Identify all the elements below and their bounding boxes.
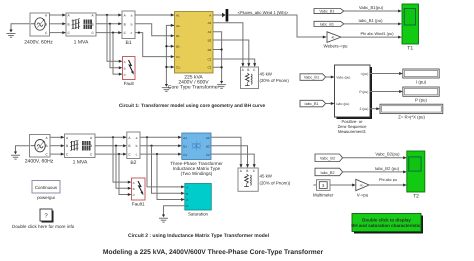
svg-text:A: A: [209, 13, 211, 17]
wire 1MVA A to B1: [96, 14, 119, 16]
wire B2 a to blue transformer A1: [140, 136, 178, 138]
block 1 MVA (top): [66, 13, 96, 36]
measurement block B2: [127, 132, 140, 159]
wire source2 A to 1MVA: [50, 136, 61, 138]
wire Vabc_B2 to scope T2: [343, 157, 404, 159]
svg-text:2400V, 60Hz: 2400V, 60Hz: [24, 39, 53, 45]
svg-text:Fault: Fault: [124, 81, 135, 86]
svg-text:C2: C2: [207, 57, 211, 61]
node neutral bus B1-: [165, 45, 167, 47]
svg-text:C2: C2: [206, 153, 210, 157]
wire Vabc_B1 to measurement: [326, 76, 331, 78]
svg-text:B: B: [92, 22, 94, 26]
display Z: [380, 104, 443, 113]
svg-text:A1: A1: [176, 13, 180, 17]
svg-text:B: B: [246, 169, 248, 173]
svg-text:B2: B2: [206, 144, 210, 148]
wire Iabc_B1 to scope T1: [344, 23, 399, 25]
svg-text:45 kW: 45 kW: [260, 71, 273, 76]
svg-text:Vabc_B2(pu): Vabc_B2(pu): [375, 152, 400, 157]
wire flux output to mux: [213, 14, 222, 16]
svg-text:b: b: [136, 144, 138, 148]
wire sat tap C to Saturation: [157, 154, 181, 199]
wire tap B down to Fault1: [116, 146, 128, 189]
wire tap A down to Fault1: [113, 137, 128, 182]
wire 1MVA2 C to B2: [95, 153, 123, 155]
node tap C (bottom fault): [118, 153, 120, 155]
label Three-Phase Transformer Inductance Matrix Type (Two Windings): [170, 161, 223, 176]
svg-text:b: b: [131, 22, 133, 26]
svg-text:A2: A2: [206, 136, 210, 140]
svg-text:A: A: [186, 185, 188, 189]
info block ?: [40, 209, 54, 223]
gain V to pu: [356, 179, 369, 190]
svg-text:-K-: -K-: [331, 36, 336, 40]
measurement block B1: [122, 11, 135, 39]
mux (flux): [222, 9, 228, 22]
node neutral bus right B2-: [221, 48, 223, 50]
fault block Fault (top): [123, 57, 136, 80]
node on B1 c wire: [138, 31, 140, 33]
svg-text:Phi abc pu: Phi abc pu: [379, 178, 397, 182]
wire B1 a to transformer A1: [135, 14, 171, 16]
svg-text:B: B: [133, 187, 135, 191]
svg-text:Double click here for more inf: Double click here for more info: [12, 224, 75, 229]
node sat tap C: [156, 153, 158, 155]
wire source2 B to 1MVA: [50, 145, 61, 147]
svg-text:B: B: [68, 22, 70, 26]
wire neutral bus right (A2- B2- C2-): [213, 32, 222, 81]
wire tap C down to Fault1: [119, 154, 128, 194]
svg-text:a: a: [136, 136, 138, 140]
wire neutral bus left (A1- B1- C1-): [166, 25, 174, 84]
wire C2 to load1: [213, 59, 255, 63]
wire gain to scope T2: [369, 184, 403, 186]
svg-text:B: B: [90, 144, 92, 148]
scope T1: [402, 4, 419, 44]
svg-text:Iabc_B1 (pu): Iabc_B1 (pu): [359, 18, 384, 23]
ground G3 (below load1 left): [217, 81, 226, 88]
svg-text:Vabc_B1(pu): Vabc_B1(pu): [359, 5, 384, 10]
wire Vabc_B1 to scope T1: [344, 10, 399, 12]
svg-text:Fault1: Fault1: [132, 202, 145, 207]
svg-text:A: A: [124, 60, 126, 64]
wire B2 c to blue transformer C1: [140, 153, 178, 155]
saturation block (teal): [185, 184, 212, 211]
svg-text:A2: A2: [208, 21, 212, 25]
wire B2 b to blue transformer B1: [140, 145, 178, 147]
svg-text:B: B: [66, 144, 68, 148]
wire 1MVA2 A to B2: [95, 136, 123, 138]
svg-text:B: B: [247, 68, 249, 72]
svg-text:(Two Windings): (Two Windings): [181, 171, 213, 176]
svg-text:B2: B2: [130, 160, 136, 166]
ground G4: [11, 152, 20, 160]
svg-text:Vabc_B1: Vabc_B1: [304, 76, 319, 80]
svg-text:C1: C1: [183, 153, 187, 157]
wire Z(pu) to display: [370, 108, 377, 110]
svg-text:Double click to display: Double click to display: [362, 218, 411, 223]
svg-text:45 kW: 45 kW: [260, 174, 273, 179]
wire 1MVA2 B to B2: [95, 145, 123, 147]
svg-text:Z (pu): Z (pu): [360, 107, 369, 111]
ground G5 (saturation): [159, 215, 168, 223]
svg-text:B: B: [128, 144, 130, 148]
wire tap B down to Fault: [110, 24, 119, 68]
svg-text:C1: C1: [176, 55, 180, 59]
wire sat tap A to Saturation: [147, 137, 181, 187]
svg-text:Measurement1: Measurement1: [338, 129, 367, 134]
wire blue A2 to load2: [211, 137, 241, 164]
wire gain to scope T1: [341, 36, 398, 38]
ground G1: [7, 30, 16, 38]
label 45 kW (bottom load): [260, 174, 291, 186]
svg-text:T1: T1: [407, 46, 413, 52]
svg-text:N: N: [186, 204, 188, 208]
from tag Vabc_B1 (top): [314, 9, 344, 14]
wire A2 to load1: [213, 23, 243, 64]
gain Webers to pu: [327, 32, 341, 43]
svg-text:I (pu): I (pu): [416, 79, 427, 84]
svg-text:1 MVA: 1 MVA: [73, 160, 88, 166]
multimeter block: [313, 180, 330, 191]
svg-text:A1: A1: [183, 136, 187, 140]
wire B1 b to transformer B1: [135, 24, 171, 36]
svg-text:BH and saturation characterist: BH and saturation characteristics: [351, 223, 423, 228]
svg-text:V->pu: V->pu: [357, 192, 369, 197]
svg-text:T2: T2: [413, 194, 419, 200]
wire source1 C to 1MVA: [50, 32, 63, 34]
svg-text:Z= R+j*X (pu): Z= R+j*X (pu): [398, 115, 425, 120]
wire mux to Webers gain: [228, 15, 323, 37]
block 1 MVA (bottom): [65, 134, 96, 158]
transformer block 225 kVA Core Type (yellow): [175, 12, 214, 74]
node tap C (top fault): [112, 31, 114, 33]
wire P(pu) to display: [370, 91, 399, 93]
svg-text:Iabc_B2 (pu): Iabc_B2 (pu): [375, 166, 400, 171]
source block 2400V 60Hz (bottom): [30, 135, 51, 158]
wire source1 A to 1MVA: [50, 14, 63, 16]
wire N of source 1 to ground: [11, 24, 30, 30]
svg-text:A2: A2: [208, 30, 212, 34]
wire Iabc_B1 to measurement: [326, 103, 331, 105]
node tap B (bottom fault): [115, 145, 117, 147]
wire B1 c to transformer C1: [135, 33, 171, 57]
svg-text:B2: B2: [208, 48, 212, 52]
svg-text:Phi abc Wind1 (pu): Phi abc Wind1 (pu): [360, 31, 394, 36]
svg-text:I (pu): I (pu): [361, 72, 369, 76]
svg-text:Core Type Transformer: Core Type Transformer: [168, 85, 220, 91]
svg-text:P (pu): P (pu): [415, 98, 427, 103]
label 225 kVA 2400V/600V Core Type Transformer: [168, 75, 220, 91]
node sat tap A: [146, 136, 148, 138]
load block 45 kW (top): [241, 67, 259, 89]
wire blue C2 to load2: [211, 154, 254, 164]
display P (pu): [403, 87, 439, 96]
scope T2: [407, 151, 425, 192]
svg-text:B1: B1: [125, 40, 131, 46]
svg-text:B: B: [46, 144, 48, 148]
svg-text:Circuit 2 : using Inductance M: Circuit 2 : using Inductance Matrix Type…: [128, 233, 270, 239]
load block 45 kW (bottom): [238, 168, 258, 191]
svg-text:Vabc_B1: Vabc_B1: [319, 10, 334, 14]
wire source2 C to 1MVA: [50, 153, 61, 155]
node tap A (bottom fault): [112, 136, 114, 138]
svg-text:Vabc (pu): Vabc (pu): [336, 75, 350, 79]
svg-text:Vabc_B2: Vabc_B2: [320, 157, 335, 161]
svg-text:Iabc_B2: Iabc_B2: [321, 171, 335, 175]
display I (pu): [403, 69, 439, 78]
svg-text:P (pu): P (pu): [359, 90, 368, 94]
svg-text:B: B: [186, 192, 188, 196]
wire saturation N to ground: [164, 206, 185, 215]
wire N of source 2 to ground: [16, 146, 30, 152]
node sat tap B: [150, 145, 152, 147]
svg-text:1 MVA: 1 MVA: [74, 39, 89, 45]
wire source1 B to 1MVA: [50, 23, 63, 25]
svg-text:B2: B2: [208, 38, 212, 42]
node neutral bus right C2-: [221, 66, 223, 68]
svg-text:Circuit 1: Transformer model u: Circuit 1: Transformer model using core …: [119, 103, 266, 109]
svg-text:B1-: B1-: [176, 45, 181, 49]
button double click display BH (green): [351, 214, 423, 234]
svg-text:C1-: C1-: [176, 65, 181, 69]
node tap A (top fault): [106, 14, 108, 16]
svg-text:B: B: [45, 22, 47, 26]
svg-text:Continuous: Continuous: [35, 185, 58, 190]
from tag Vabc_B2: [315, 154, 343, 162]
wire B2 to load1: [213, 40, 249, 63]
from tag Iabc_B2: [315, 168, 343, 176]
svg-text:-K-: -K-: [359, 184, 364, 188]
svg-text:Saturation: Saturation: [188, 212, 209, 217]
svg-text:Iabc_B1: Iabc_B1: [305, 102, 319, 106]
wire tap A down to Fault: [107, 15, 119, 61]
wire I(pu) to display: [370, 73, 399, 75]
node tap B (top fault): [109, 23, 111, 25]
label 45 kW (top load): [260, 71, 290, 82]
sequence measurement block U1: [335, 65, 373, 119]
wire blue B2 to load2: [211, 146, 248, 165]
svg-text:B: B: [124, 66, 126, 70]
svg-text:A1-: A1-: [176, 24, 181, 28]
svg-text:Iabc_B1: Iabc_B1: [320, 22, 334, 26]
from tag Iabc_B1 (middle): [300, 100, 326, 107]
wire 1MVA C to B1: [96, 32, 119, 34]
node neutral bus C1-: [165, 66, 167, 68]
svg-text:Multimeter: Multimeter: [313, 192, 334, 197]
wire tap C down to Fault: [113, 33, 119, 75]
svg-text:(20% of Pnom)(: (20% of Pnom)(: [260, 180, 291, 185]
svg-text:<Fluxes_abc Wind 1 (Wb)>: <Fluxes_abc Wind 1 (Wb)>: [238, 10, 289, 15]
transformer block Inductance Matrix Type (blue): [182, 133, 211, 160]
from tag Iabc_B1 (top): [314, 21, 344, 26]
svg-text:A: A: [133, 181, 135, 185]
svg-text:2400V, 60Hz: 2400V, 60Hz: [25, 159, 54, 165]
ground G2 (below transformer left): [162, 84, 171, 91]
svg-text:a: a: [131, 14, 133, 18]
svg-text:Modeling a 225 kVA, 2400V/600V: Modeling a 225 kVA, 2400V/600V Three-Pha…: [103, 249, 324, 256]
powergui block: [32, 181, 60, 194]
svg-text:B: B: [124, 22, 126, 26]
svg-text:powergui: powergui: [37, 195, 55, 200]
wire Iabc_B2 to scope T2: [343, 171, 404, 173]
wire 1MVA B to B1: [96, 23, 119, 25]
wire sat tap B to Saturation: [152, 146, 182, 194]
from tag Vabc_B1 (middle): [300, 74, 326, 81]
svg-text:Webers->pu: Webers->pu: [324, 44, 349, 49]
wire multimeter to gain: [330, 184, 352, 186]
svg-text:(20% of Pnom): (20% of Pnom): [260, 78, 290, 83]
svg-text:B1: B1: [176, 34, 180, 38]
label Positive- or Zero-Sequence Measurement1: [338, 119, 368, 134]
fault block Fault1 (bottom): [132, 178, 146, 200]
svg-text:C2: C2: [207, 66, 211, 70]
svg-text:B1: B1: [183, 144, 187, 148]
source block 2400V 60Hz (top): [30, 13, 50, 36]
svg-text:Iabc (pu): Iabc (pu): [336, 102, 349, 106]
